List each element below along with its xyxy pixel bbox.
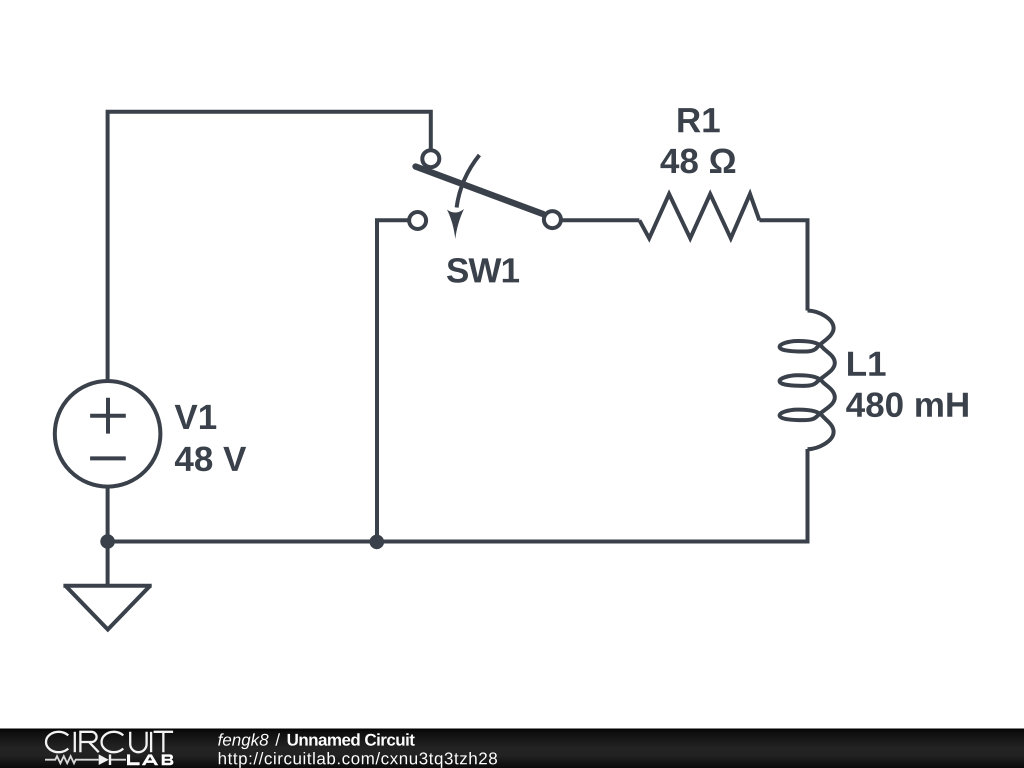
label R1 value 48 ohm [660,149,735,174]
logo letter U [130,732,146,752]
label L1 [848,352,886,376]
logo letter B [162,754,174,765]
logo letter C [46,732,68,752]
node junction dot V1/ground on bottom rail [100,534,115,549]
wire resistor R1 to inductor L1 [759,220,807,310]
logo letter C [102,732,124,752]
label V1 value 48 V [175,446,246,471]
switch SW1 arrowhead [447,209,464,239]
ground triangle [66,586,150,629]
resistor R1 [639,194,759,238]
logo letter L [127,754,140,765]
footer title Unnamed Circuit [288,733,415,745]
V1 plus sign [90,398,126,434]
wire switch SW1 pin 2 down to bottom rail [377,220,408,541]
switch SW1 pin 1 circle [422,150,439,167]
footer slash [275,733,280,745]
switch SW1 pin 3 circle [544,211,561,228]
switch SW1 motion arc [457,155,480,208]
switch SW1 blade [416,167,544,215]
logo letter R [80,732,98,752]
label L1 value 480 mH [846,392,968,417]
voltage source V1 circle [55,381,161,487]
logo diode bar [109,754,111,765]
logo resistor squiggle wire [45,756,126,763]
logo letter A [142,754,159,765]
logo letter I [150,732,152,752]
inductor L1 [780,311,835,450]
logo diode triangle [99,754,109,765]
footer bar [0,729,1024,768]
logo letter I [74,732,76,752]
wire V1 minus to bottom rail [106,487,110,542]
wire bottom rail to ground [106,542,110,585]
label SW1 [447,258,519,283]
ground bar [63,584,151,588]
label V1 [175,405,217,429]
wire top rail: V1 plus to switch SW1 pin 1 [108,112,431,381]
switch SW1 pin 2 circle [409,212,426,229]
V1 minus sign [90,456,126,460]
wire inductor L1 to bottom rail [108,449,808,542]
footer url [219,752,497,768]
wire switch SW1 pin 3 to resistor R1 [561,218,639,222]
node junction dot switch branch on bottom rail [370,535,385,550]
logo letter T [154,732,174,752]
label R1 [678,108,719,132]
footer user fengk8 [218,733,268,749]
